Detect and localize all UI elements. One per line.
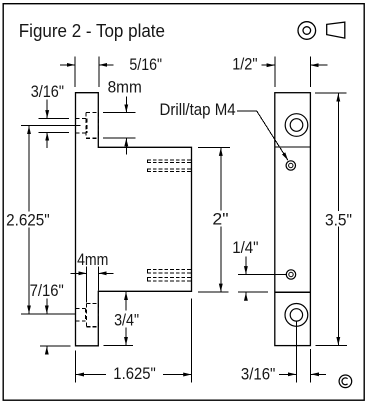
dimension 5/16" (plate thickness): [60, 57, 114, 87]
dimension 3/16" (top hole pilot dia): [39, 100, 70, 149]
dimension 2" (middle section height): [198, 147, 230, 292]
lower counterbored hole (face view circles): [285, 304, 308, 327]
svg-text:2.625": 2.625": [6, 211, 50, 229]
lower M4 tapped hole (face view circles): [286, 270, 295, 279]
dimension 7/16" (bottom hole centre to bottom edge): [40, 299, 71, 355]
lower hole centre extension line: [295, 321, 297, 382]
svg-text:Figure 2 - Top plate: Figure 2 - Top plate: [19, 21, 165, 41]
top hole counterbore (hidden, dashed): [86, 113, 98, 139]
left view outline (side section of top plate): [76, 93, 192, 346]
right edge extension line below right view: [310, 349, 312, 383]
dimension 1/4" (lower M4 hole to shoulder): [238, 257, 287, 301]
svg-text:3/16": 3/16": [241, 365, 276, 383]
bottom hole pilot bore (hidden, dashed): [76, 309, 86, 322]
dimension 8mm (counterbore dia): [103, 97, 136, 155]
svg-text:3.5": 3.5": [325, 211, 352, 229]
svg-text:3/4": 3/4": [114, 312, 139, 330]
bottom hole counterbore (hidden, dashed): [86, 303, 98, 326]
dimension 3/4" (bottom tab height): [104, 292, 134, 346]
third-angle projection symbol: cone frustum: [327, 22, 345, 38]
dimension 3/16" (lower hole centre to right edge): [279, 373, 326, 375]
upper M4 tapped hole (hidden thread lines): [147, 160, 191, 171]
upper M4 tapped hole (face view circles): [286, 161, 295, 170]
svg-text:2": 2": [212, 210, 228, 228]
lower M4 tapped hole (hidden thread lines): [147, 270, 191, 282]
right view outline (face view): [275, 93, 311, 346]
svg-text:7/16": 7/16": [30, 282, 64, 300]
top hole pilot bore (hidden, dashed): [76, 118, 87, 132]
svg-text:4mm: 4mm: [77, 251, 108, 269]
right view lower shoulder line: [275, 291, 311, 293]
svg-text:1/4": 1/4": [232, 239, 258, 257]
third-angle projection symbol: circles: [298, 22, 316, 40]
dimension 2.625" (hole centre spacing): [28, 126, 30, 314]
copyright mark: [339, 375, 352, 388]
svg-text:Drill/tap M4: Drill/tap M4: [160, 101, 236, 119]
svg-text:3/16": 3/16": [31, 83, 64, 101]
svg-text:8mm: 8mm: [108, 79, 142, 97]
upper counterbored hole (face view circles): [285, 114, 308, 137]
svg-text:1.625": 1.625": [113, 365, 156, 383]
bottom hole centerline: [21, 313, 75, 315]
svg-text:1/2": 1/2": [232, 56, 257, 74]
dimension 3.5" (overall height): [315, 93, 347, 346]
svg-text:5/16": 5/16": [129, 56, 162, 74]
dimension 4mm (bottom counterbore depth): [71, 267, 114, 303]
right view upper shoulder line: [275, 146, 311, 148]
dimension 1/2" (right view width): [262, 57, 328, 87]
top hole centerline: [21, 125, 81, 127]
leader Drill/tap M4: [237, 111, 288, 161]
dimension 1.625" (plate width): [75, 299, 191, 383]
